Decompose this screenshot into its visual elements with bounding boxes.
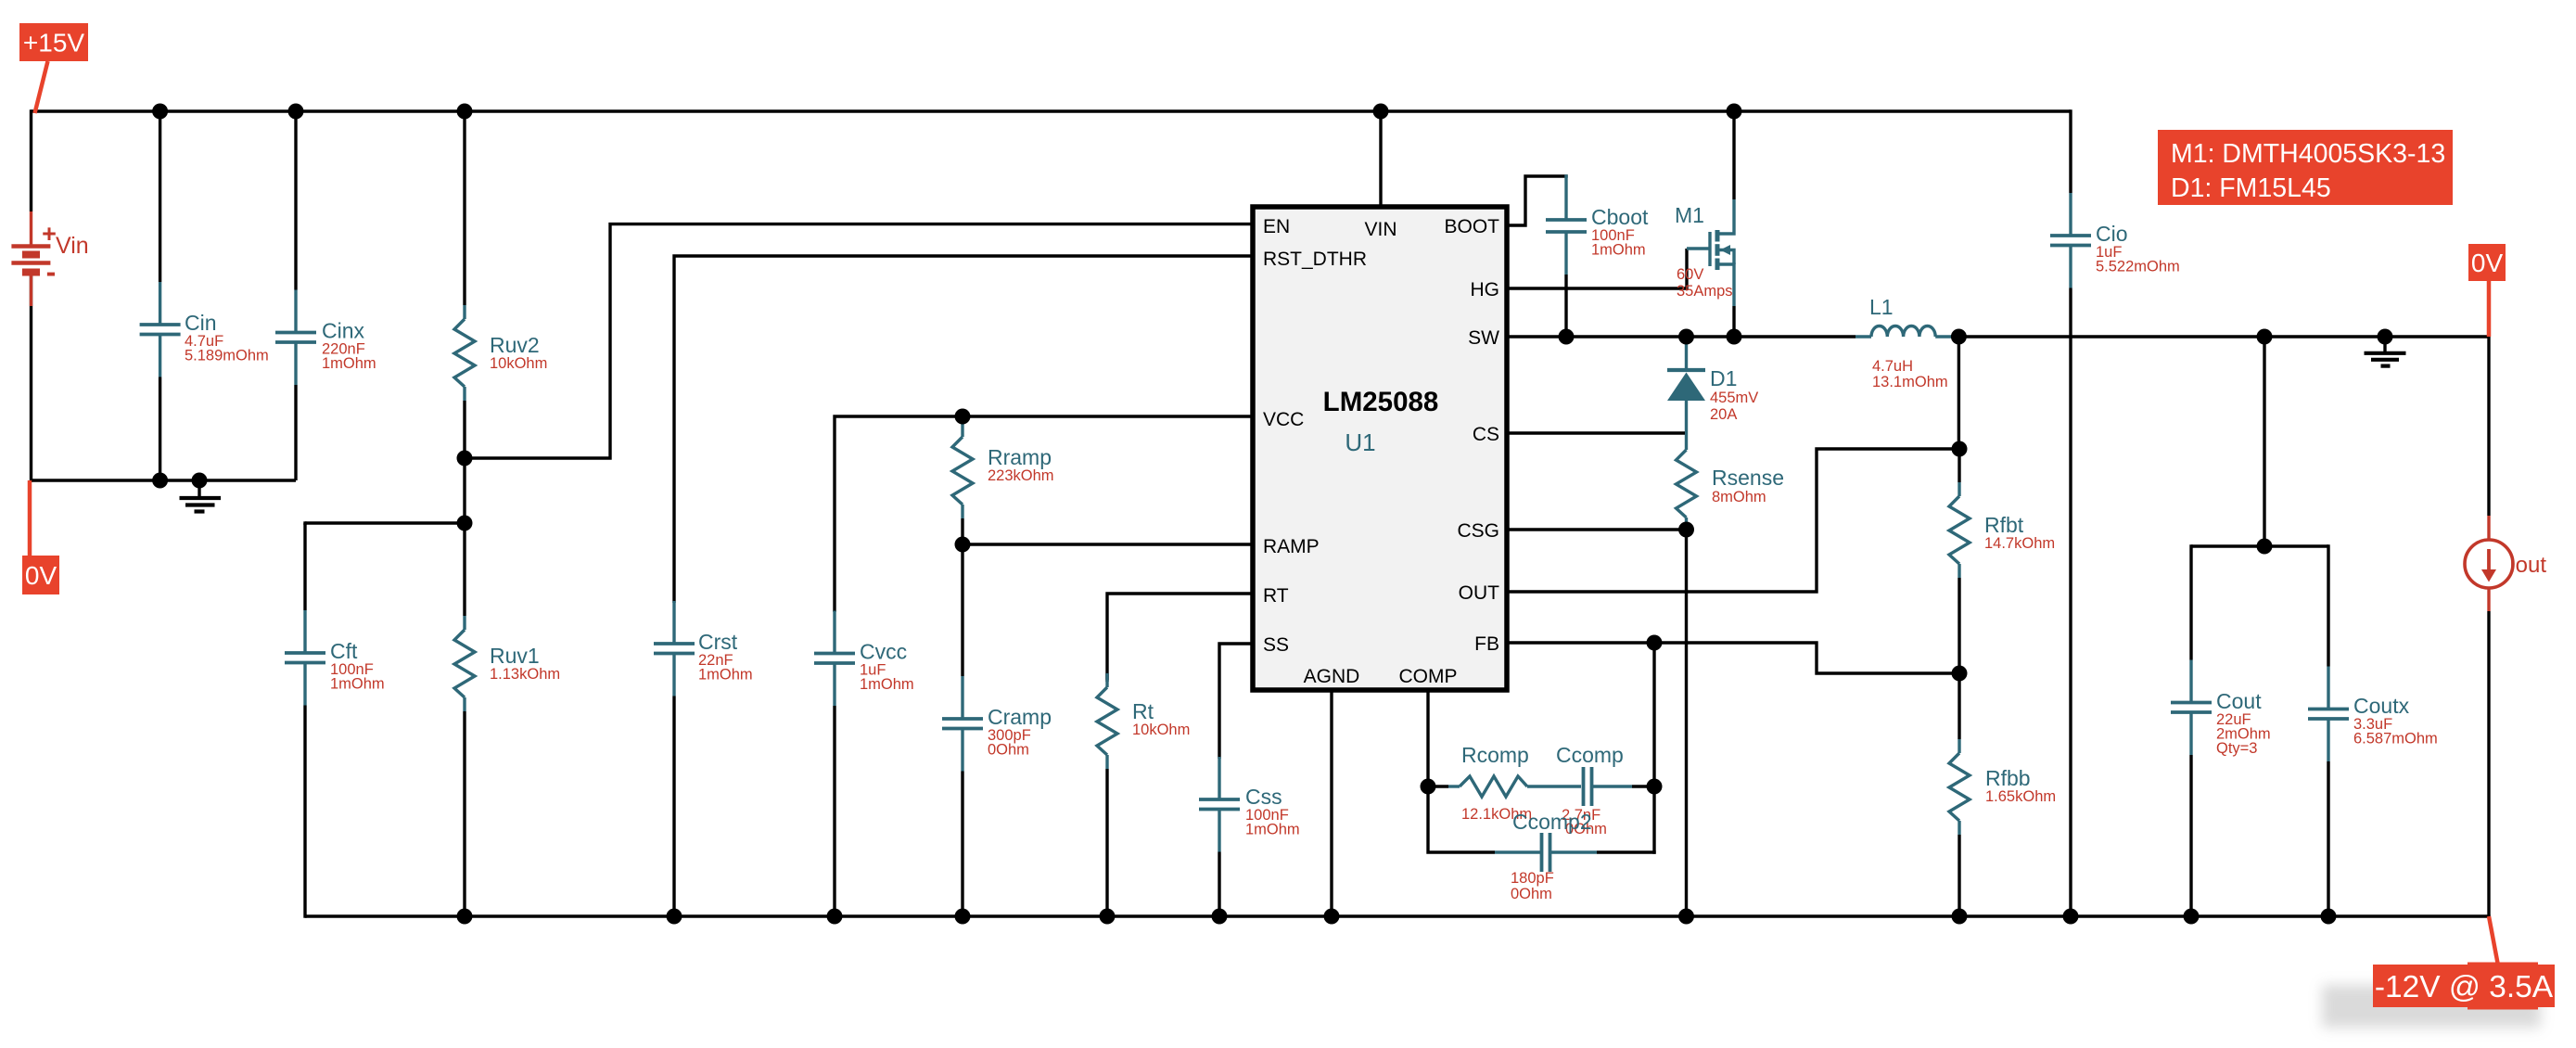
svg-text:6.587mOhm: 6.587mOhm	[2353, 731, 2438, 748]
transistor M1	[1675, 111, 1734, 337]
wire FB net	[1507, 643, 1959, 673]
wire EN net	[465, 224, 1253, 458]
wire BOOT net	[1507, 176, 1568, 225]
svg-text:1mOhm: 1mOhm	[322, 355, 376, 372]
node dots FB divider	[1952, 441, 1968, 682]
svg-text:VIN: VIN	[1364, 219, 1396, 240]
wire Cft top branch	[305, 521, 465, 524]
svg-text:1mOhm: 1mOhm	[698, 667, 753, 684]
svg-text:5.189mOhm: 5.189mOhm	[185, 348, 269, 364]
svg-text:Cio: Cio	[2096, 222, 2128, 246]
capacitor Cinx	[275, 111, 376, 480]
capacitor Ccomp2	[1495, 810, 1656, 902]
svg-text:Cvcc: Cvcc	[860, 640, 907, 664]
ground (input)	[180, 480, 222, 512]
svg-text:HG: HG	[1471, 279, 1500, 300]
svg-text:M1: DMTH4005SK3-13: M1: DMTH4005SK3-13	[2171, 139, 2445, 169]
svg-text:+15V: +15V	[23, 29, 84, 58]
svg-text:D1: FM15L45: D1: FM15L45	[2171, 173, 2331, 203]
svg-text:0V: 0V	[25, 561, 57, 590]
capacitor Cft	[285, 521, 385, 917]
svg-text:Cout: Cout	[2216, 689, 2262, 713]
svg-text:-12V @ 3.5A: -12V @ 3.5A	[2375, 970, 2554, 1004]
pin SW	[1468, 327, 1499, 349]
svg-text:0Ohm: 0Ohm	[988, 742, 1029, 759]
svg-text:EN: EN	[1263, 216, 1290, 237]
svg-text:Cft: Cft	[330, 639, 358, 663]
svg-text:Cin: Cin	[185, 311, 217, 335]
pin RT	[1263, 585, 1289, 607]
wire CSG net	[1507, 528, 1687, 530]
svg-text:Ruv2: Ruv2	[490, 333, 540, 357]
svg-text:20A: 20A	[1710, 406, 1737, 423]
svg-text:OUT: OUT	[1459, 582, 1500, 604]
svg-text:CSG: CSG	[1457, 520, 1499, 542]
wire SS net	[1219, 644, 1253, 759]
pin VCC	[1263, 409, 1304, 430]
svg-text:10kOhm: 10kOhm	[490, 355, 547, 372]
wire CSG to bottom bus	[1685, 536, 1688, 916]
svg-text:D1: D1	[1710, 366, 1737, 390]
svg-text:13.1mOhm: 13.1mOhm	[1872, 374, 1948, 390]
wire +15V top rail	[32, 109, 2072, 112]
pin VIN	[1364, 219, 1396, 240]
svg-text:8mOhm: 8mOhm	[1712, 489, 1766, 505]
pin AGND	[1304, 666, 1360, 687]
svg-text:SW: SW	[1468, 327, 1499, 349]
wire VCC net	[835, 416, 1253, 612]
node dots on +15V rail	[152, 104, 1741, 120]
svg-text:COMP: COMP	[1399, 666, 1458, 687]
svg-text:Rsense: Rsense	[1712, 466, 1784, 490]
pin HG	[1471, 279, 1500, 300]
wire left input vertical (top)	[30, 109, 32, 211]
wire output caps branch	[2191, 337, 2328, 546]
svg-text:SS: SS	[1263, 634, 1289, 656]
svg-text:Rfbb: Rfbb	[1985, 766, 2031, 790]
wire input bottom bus	[32, 479, 297, 481]
wire left input vertical (bottom)	[30, 273, 32, 482]
svg-text:LM25088: LM25088	[1323, 387, 1439, 417]
pin OUT	[1459, 582, 1500, 604]
wire COMP net	[1426, 690, 1429, 786]
svg-text:14.7kOhm: 14.7kOhm	[1984, 535, 2055, 552]
svg-text:BOOT: BOOT	[1444, 216, 1499, 237]
capacitor Coutx	[2308, 544, 2438, 916]
svg-text:180pF: 180pF	[1511, 870, 1554, 887]
svg-text:RST_DTHR: RST_DTHR	[1263, 249, 1367, 270]
voltage source Vin	[11, 211, 88, 306]
resistor Rfbb	[1949, 673, 2056, 916]
pin RAMP	[1263, 536, 1320, 557]
capacitor Cvcc	[814, 610, 914, 916]
svg-text:Cramp: Cramp	[988, 705, 1052, 729]
svg-text:Coutx: Coutx	[2353, 694, 2410, 718]
pin FB	[1474, 633, 1499, 655]
node dots on input bus	[152, 473, 207, 489]
svg-text:Ruv1: Ruv1	[490, 644, 540, 668]
svg-text:Crst: Crst	[698, 630, 738, 654]
svg-text:Vin: Vin	[56, 233, 89, 259]
pin CSG	[1457, 520, 1499, 542]
op-amp U1 LM25088 body	[1253, 207, 1507, 690]
capacitor Cout	[2171, 544, 2271, 916]
node dots bottom bus	[457, 909, 2337, 925]
wire Ccomp2 to FB	[1652, 785, 1655, 854]
wire FB branch vertical	[1652, 643, 1655, 786]
svg-text:CS: CS	[1473, 424, 1499, 445]
wire OUT net	[1507, 449, 1959, 592]
wire HG net	[1507, 249, 1687, 288]
pin BOOT	[1444, 216, 1499, 237]
svg-text:U1: U1	[1345, 428, 1375, 456]
svg-text:AGND: AGND	[1304, 666, 1360, 687]
wire SW net	[1507, 335, 1855, 338]
U1 title	[1323, 387, 1439, 456]
svg-text:+: +	[42, 220, 57, 248]
svg-text:Rt: Rt	[1132, 699, 1154, 723]
svg-text:35Amps: 35Amps	[1677, 283, 1733, 300]
svg-text:1.13kOhm: 1.13kOhm	[490, 666, 560, 683]
svg-text:Ccomp2: Ccomp2	[1512, 810, 1592, 834]
capacitor Css	[1199, 757, 1300, 916]
resistor Rramp	[952, 416, 1054, 544]
svg-text:Rfbt: Rfbt	[1984, 513, 2024, 537]
svg-text:455mV: 455mV	[1710, 390, 1758, 406]
svg-text:M1: M1	[1675, 203, 1704, 227]
resistor Rfbt	[1949, 449, 2055, 673]
pin EN	[1263, 216, 1290, 237]
inductor L1	[1855, 295, 1951, 390]
node label +15V	[19, 23, 88, 113]
node dots on SW net	[1559, 329, 2393, 345]
capacitor Cio	[2050, 109, 2180, 916]
wire bottom -12V bus	[305, 914, 2491, 917]
svg-text:4.7uH: 4.7uH	[1872, 358, 1913, 375]
node dots comp net	[1421, 635, 1663, 795]
svg-text:RT: RT	[1263, 585, 1289, 607]
wire RT net	[1107, 594, 1253, 682]
svg-text:1mOhm: 1mOhm	[1591, 242, 1646, 259]
node dot output caps	[2257, 539, 2273, 555]
node label 0V (output gnd)	[2468, 244, 2506, 337]
resistor Rcomp	[1428, 743, 1581, 823]
node dots VCC/RAMP	[955, 409, 971, 553]
wire VIN to rail	[1379, 111, 1382, 207]
svg-text:Ccomp: Ccomp	[1556, 743, 1624, 767]
svg-text:60V: 60V	[1677, 266, 1703, 283]
svg-text:Rcomp: Rcomp	[1461, 743, 1529, 767]
svg-text:Cboot: Cboot	[1591, 205, 1649, 229]
current source Iout	[2465, 337, 2546, 918]
capacitor Cramp	[942, 544, 1052, 916]
resistor Rt	[1097, 673, 1190, 916]
svg-text:0Ohm: 0Ohm	[1511, 886, 1552, 902]
pin CS	[1473, 424, 1499, 445]
svg-text:1.65kOhm: 1.65kOhm	[1985, 788, 2056, 805]
svg-text:5.522mOhm: 5.522mOhm	[2096, 259, 2180, 275]
wire RAMP net	[963, 543, 1253, 545]
svg-text:10kOhm: 10kOhm	[1132, 722, 1190, 738]
pin SS	[1263, 634, 1289, 656]
capacitor Crst	[654, 601, 753, 916]
svg-text:Cinx: Cinx	[322, 319, 365, 343]
svg-text:0V: 0V	[2471, 249, 2504, 277]
node label 0V (input return)	[22, 480, 59, 594]
wire AGND net	[1330, 690, 1333, 916]
svg-text:RAMP: RAMP	[1263, 536, 1320, 557]
wire SW to Rfbt	[1958, 337, 1960, 449]
resistor Rsense	[1677, 450, 1784, 536]
part info box M1/D1	[2158, 130, 2453, 205]
resistor Ruv2	[454, 111, 547, 458]
diode D1	[1667, 337, 1758, 450]
svg-text:VCC: VCC	[1263, 409, 1304, 430]
resistor Ruv1	[454, 458, 560, 916]
pin COMP	[1399, 666, 1458, 687]
svg-text:1mOhm: 1mOhm	[860, 676, 914, 693]
svg-text:Qty=3: Qty=3	[2216, 740, 2257, 757]
wire COMP to Ccomp2	[1428, 786, 1495, 852]
svg-text:Iout: Iout	[2509, 553, 2546, 578]
node dot EN divider	[457, 451, 473, 531]
capacitor Cin	[140, 111, 269, 480]
wire CS net	[1507, 431, 1685, 434]
svg-text:Css: Css	[1245, 785, 1282, 809]
svg-text:FB: FB	[1474, 633, 1499, 655]
wire SW net right of L1	[1951, 335, 2489, 338]
node label -12V @ 3.5A	[2322, 916, 2555, 1028]
svg-text:223kOhm: 223kOhm	[988, 467, 1054, 484]
ground (output 0V)	[2365, 337, 2406, 366]
capacitor Ccomp	[1556, 743, 1654, 837]
svg-text:L1: L1	[1869, 295, 1894, 319]
capacitor Cboot	[1546, 174, 1649, 337]
node dot CSG	[1678, 522, 1694, 538]
wire RST_DTHR net	[674, 256, 1253, 603]
svg-text:1mOhm: 1mOhm	[330, 676, 385, 693]
svg-text:-: -	[46, 255, 57, 288]
svg-text:Rramp: Rramp	[988, 445, 1052, 469]
pin RST_DTHR	[1263, 249, 1367, 270]
svg-text:1mOhm: 1mOhm	[1245, 822, 1300, 838]
